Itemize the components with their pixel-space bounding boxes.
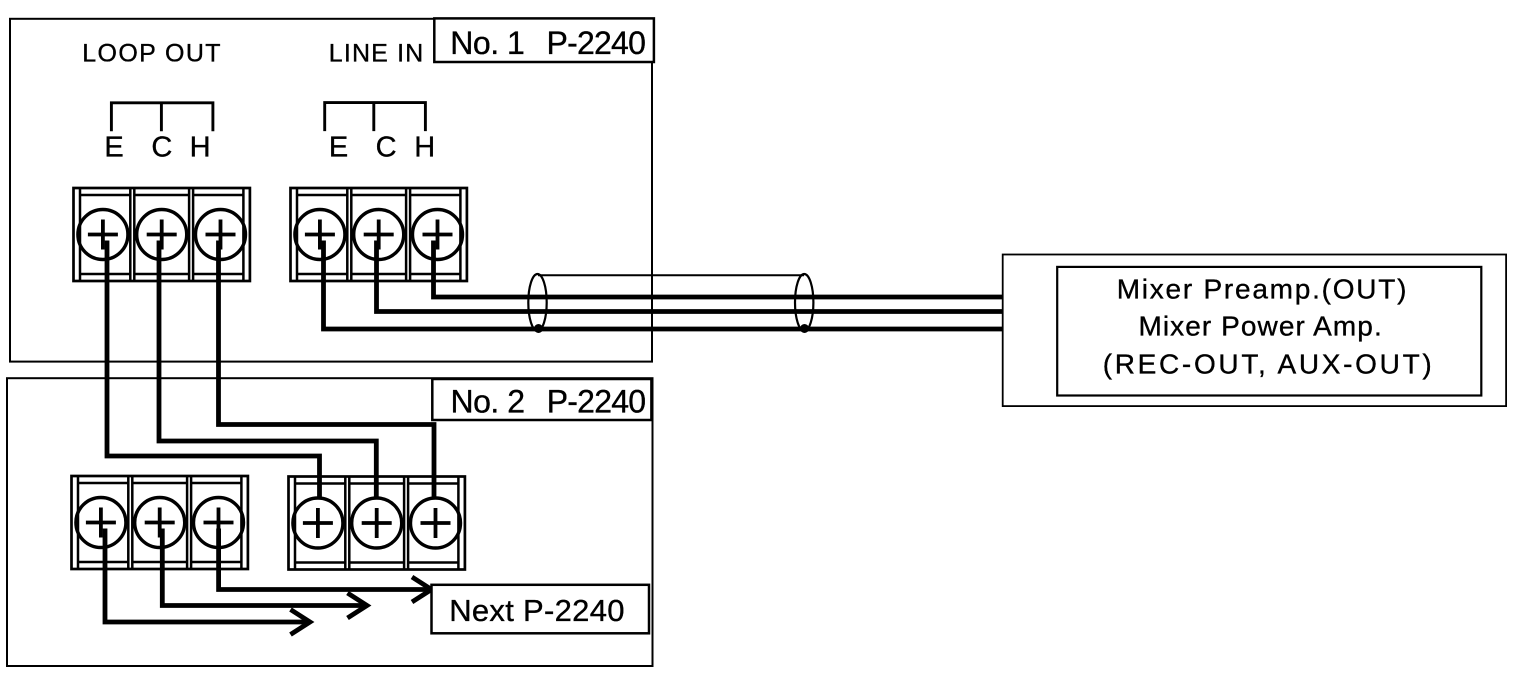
terminal block LINE IN No.1 xyxy=(291,188,467,281)
svg-text:(REC-OUT, AUX-OUT): (REC-OUT, AUX-OUT) xyxy=(1103,348,1435,379)
svg-text:C: C xyxy=(151,132,172,164)
wire H: No.1 LINE IN to mixer xyxy=(434,241,1004,298)
amplifier enclosure box No.1 xyxy=(10,19,652,362)
mixer outer box xyxy=(1003,255,1506,407)
next amplifier box xyxy=(432,585,650,634)
svg-text:No. 2: No. 2 xyxy=(451,383,525,419)
cable end ellipse right xyxy=(795,274,813,331)
svg-text:LOOP OUT: LOOP OUT xyxy=(82,40,222,68)
cable end ellipse left xyxy=(528,274,546,331)
wire C: No.1 LOOP OUT to No.2 LINE IN xyxy=(159,241,376,500)
mixer inner box xyxy=(1057,267,1481,396)
svg-text:E: E xyxy=(329,132,348,164)
wire H: No.2 LOOP OUT to next arrow xyxy=(219,529,431,590)
terminal block LINE IN No.2 xyxy=(289,477,465,570)
svg-text:Mixer Power Amp.: Mixer Power Amp. xyxy=(1139,311,1383,342)
bracket LOOP OUT xyxy=(111,103,212,132)
arrowhead E next xyxy=(291,610,311,635)
svg-text:P-2240: P-2240 xyxy=(547,383,646,419)
terminal block LOOP OUT No.2 xyxy=(72,476,248,569)
arrowhead H next xyxy=(412,577,432,602)
svg-text:C: C xyxy=(376,132,397,164)
cable sheath top line xyxy=(538,274,804,276)
svg-text:H: H xyxy=(414,132,435,164)
svg-text:No. 1: No. 1 xyxy=(450,25,524,61)
svg-text:Next P-2240: Next P-2240 xyxy=(449,593,625,628)
shield junction dot right xyxy=(800,324,809,333)
svg-text:LINE IN: LINE IN xyxy=(329,40,425,68)
shield junction dot left xyxy=(534,324,543,333)
wire C: No.1 LINE IN to mixer xyxy=(377,241,1004,312)
wire H: No.1 LOOP OUT to No.2 LINE IN xyxy=(219,241,435,500)
label box No.1 xyxy=(434,18,654,62)
arrowhead C next xyxy=(348,593,368,618)
wire E: No.2 LOOP OUT to next arrow xyxy=(105,529,309,623)
svg-text:P-2240: P-2240 xyxy=(547,25,646,61)
wire C: No.2 LOOP OUT to next arrow xyxy=(162,529,366,606)
wire E: No.1 LOOP OUT to No.2 LINE IN xyxy=(107,241,320,500)
svg-text:Mixer Preamp.(OUT): Mixer Preamp.(OUT) xyxy=(1117,273,1408,304)
svg-text:H: H xyxy=(190,132,211,164)
wire E shield: No.1 LINE IN to mixer xyxy=(324,241,1004,330)
label box No.2 xyxy=(432,379,651,420)
svg-text:E: E xyxy=(104,132,123,164)
terminal block LOOP OUT No.1 xyxy=(74,188,250,281)
bracket LINE IN xyxy=(325,103,426,132)
amplifier enclosure box No.2 xyxy=(7,378,653,666)
